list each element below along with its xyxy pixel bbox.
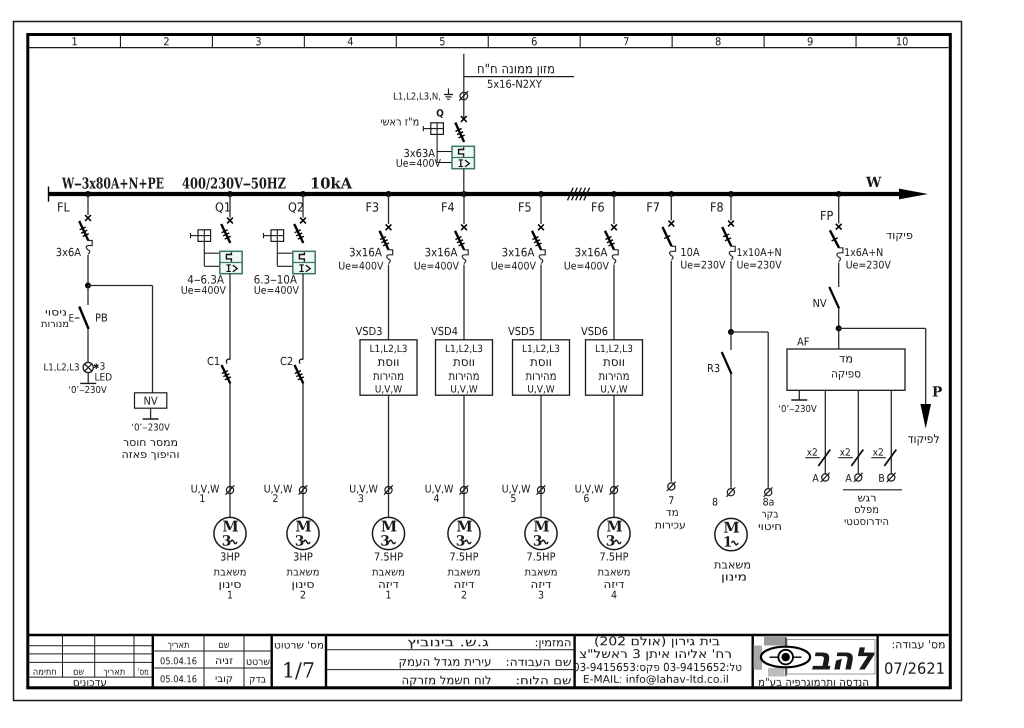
logo subtitle hebrew xyxy=(758,678,868,687)
bus W arrowhead xyxy=(899,189,928,200)
label VSD3 xyxy=(356,327,382,335)
label 3x6A xyxy=(57,248,81,256)
label F6 xyxy=(592,202,604,212)
hydrostatic sensor hebrew xyxy=(858,496,876,502)
sensor wire B xyxy=(890,390,892,474)
sensor wire A xyxy=(824,390,826,474)
breaker F8 thermal xyxy=(731,246,735,251)
label Ue=400V Q1 xyxy=(182,286,226,294)
label Ue=230V F8 xyxy=(737,261,781,269)
wire PB to lamp xyxy=(87,329,89,362)
address line 1 hebrew xyxy=(595,636,719,648)
VSD box VSD6 xyxy=(586,340,643,395)
address line 3 phone xyxy=(574,663,742,674)
label PB xyxy=(96,314,107,322)
motor 5 hebrew label xyxy=(525,570,557,576)
revisions footer hebrew xyxy=(74,680,106,686)
wire F4 xyxy=(463,194,465,224)
breaker Q trip unit xyxy=(452,146,474,168)
work number label hebrew xyxy=(893,640,945,649)
label 0-230V AF xyxy=(779,405,817,412)
breaker F8 x-mark xyxy=(728,221,734,227)
sensor wire A xyxy=(857,390,859,474)
VSD4 UVW xyxy=(451,385,477,394)
VSD5 hebrew speed-controller xyxy=(530,359,551,366)
label 3x16A F6 xyxy=(575,248,607,257)
motor 1 number xyxy=(228,591,232,599)
contactor C1 label xyxy=(208,357,220,365)
date row 2 xyxy=(161,675,197,682)
cable label U,V,W 3 xyxy=(350,485,378,494)
wire F5 to VSD xyxy=(540,265,542,340)
label 0-230V NV xyxy=(132,423,170,430)
title block top line xyxy=(28,634,949,637)
breaker FL thermal xyxy=(88,241,92,246)
date table lines xyxy=(153,650,272,652)
motor M1 xyxy=(214,517,246,549)
label 4‒6.3A xyxy=(188,275,224,284)
breaker F5 contact xyxy=(532,231,541,250)
wire F5 xyxy=(540,194,542,224)
incomer phases label xyxy=(394,92,440,100)
cable mark B xyxy=(888,474,895,481)
label VSD5 xyxy=(508,327,534,335)
cable label U,V,W 2 xyxy=(265,485,293,494)
label 3HP xyxy=(294,552,313,560)
bus junction node xyxy=(85,191,91,197)
lamp phases label xyxy=(44,363,79,371)
label 0-230V lamp xyxy=(69,386,107,393)
revisions header hebrew xyxy=(34,670,56,675)
label Ue=400V F4 xyxy=(415,262,459,270)
title block divider xyxy=(271,635,273,688)
wire to P arrow xyxy=(839,327,926,329)
cable mark 8a xyxy=(765,489,772,496)
wire F3 xyxy=(388,194,390,224)
flow meter AF box xyxy=(787,349,905,390)
node FL/NV xyxy=(85,283,91,289)
label VSD6 xyxy=(581,327,607,335)
x2 switch A xyxy=(818,450,830,467)
label AF xyxy=(797,338,809,346)
incomer cable mark xyxy=(460,92,468,100)
label 1x6A+N xyxy=(845,248,882,256)
logo gray blocks xyxy=(764,636,787,646)
bus label 400/230V-50HZ xyxy=(183,177,286,190)
cable mark 4 xyxy=(460,487,467,494)
breaker FP x-mark xyxy=(836,224,842,230)
job label hebrew xyxy=(507,660,571,667)
bus label 10kA xyxy=(312,177,352,189)
motor 4 hebrew label xyxy=(448,570,480,576)
logo inner frame xyxy=(787,640,875,675)
sensor underline xyxy=(843,489,902,491)
pushbutton PB label hebrew xyxy=(46,310,66,315)
VSD3 hebrew speed-controller xyxy=(378,359,399,366)
cable mark 6 xyxy=(610,487,617,494)
breaker FL x-mark xyxy=(85,215,91,221)
indicator lamp xyxy=(83,362,93,372)
logo crosshair xyxy=(785,638,787,676)
breaker Q contact xyxy=(455,123,464,143)
ruler strip xyxy=(29,47,949,49)
label FL xyxy=(58,202,70,211)
label 7.5HP F4 xyxy=(450,553,478,561)
label Ue=230V FP xyxy=(847,261,891,269)
breaker Q2 contact xyxy=(294,224,303,243)
bus junction node xyxy=(668,191,674,197)
bus junction node xyxy=(611,191,617,197)
breaker F3 thermal xyxy=(389,250,393,255)
breaker Q1 contact xyxy=(221,224,230,243)
earth symbol xyxy=(448,89,450,95)
cable label U,V,W 4 xyxy=(426,485,454,494)
title block divider xyxy=(876,635,878,688)
logo eye xyxy=(761,647,810,668)
label phase-loss relay hebrew xyxy=(124,440,178,446)
label 8a xyxy=(763,498,773,506)
wire F4 to VSD xyxy=(463,265,465,340)
bus W xyxy=(49,192,907,196)
label FP xyxy=(821,211,833,220)
motor M4 xyxy=(448,517,480,549)
cable mark 3 xyxy=(385,487,392,494)
drawing number 1/7 xyxy=(284,662,313,680)
title block divider xyxy=(152,635,154,688)
x2 switch B xyxy=(884,450,896,467)
client cell rows xyxy=(326,649,575,651)
title block divider xyxy=(752,635,754,688)
breaker Q1 linkage xyxy=(203,241,205,266)
cable label U,V,W 1 xyxy=(192,485,220,494)
motor 2 number xyxy=(301,591,305,599)
bus label W-3x80A+N+PE xyxy=(62,177,163,188)
label R3 xyxy=(708,364,719,372)
AF terminal xyxy=(798,390,800,400)
wire Q1 to contactor xyxy=(229,274,231,359)
cable mark 1 xyxy=(226,487,233,494)
label 7.5HP F5 xyxy=(527,553,555,561)
label to-control hebrew xyxy=(908,434,939,445)
label 7 xyxy=(669,496,673,504)
VSD4 hebrew speed-controller xyxy=(453,359,474,366)
dosing pump hebrew label xyxy=(714,562,750,568)
label F3 xyxy=(367,202,379,212)
VSD box VSD5 xyxy=(513,340,570,395)
feeder cable label xyxy=(488,80,542,88)
bus junction node xyxy=(728,191,734,197)
job value hebrew xyxy=(400,657,491,668)
motor 5 number xyxy=(539,591,544,599)
contactor C2 xyxy=(299,359,303,363)
NV terminal xyxy=(150,408,152,419)
label 1x10A+N xyxy=(738,248,781,256)
breaker F6 contact xyxy=(605,231,614,250)
label 7.5HP F3 xyxy=(375,553,403,561)
address line 4 email xyxy=(584,675,728,685)
label Q2 xyxy=(289,202,303,213)
node F8 split xyxy=(728,329,734,335)
AF hebrew flow meter xyxy=(840,356,853,362)
label F4 xyxy=(442,202,454,211)
breaker F5 thermal xyxy=(541,250,545,255)
breaker Q2 x-mark xyxy=(300,218,306,224)
wire node to AF box xyxy=(838,328,840,349)
label Q1 xyxy=(216,202,230,213)
breaker Q1 x-mark xyxy=(227,218,233,224)
breaker FP contact xyxy=(830,230,839,248)
breaker Q x-mark xyxy=(461,116,467,122)
VSD3 UVW xyxy=(376,385,402,394)
wire F7 xyxy=(670,194,672,220)
client value hebrew xyxy=(408,640,489,649)
wire F3 to VSD xyxy=(388,265,390,340)
motor 6 hebrew label xyxy=(598,570,630,576)
breaker Q2 linkage xyxy=(276,241,278,266)
breaker Q2 operator box xyxy=(271,230,284,242)
panel label hebrew xyxy=(517,676,571,684)
wire FL lower xyxy=(87,255,89,286)
pushbutton PB actuator xyxy=(69,314,73,321)
cable mark 8 xyxy=(727,489,734,496)
label turbidity meter hebrew xyxy=(666,510,678,516)
incomer wire to bus xyxy=(463,169,465,194)
wire to R3 xyxy=(730,332,732,350)
VSD box VSD4 xyxy=(436,340,493,395)
wire to NV relay xyxy=(88,285,153,287)
wire C1 to motor xyxy=(229,384,231,518)
relay NV box xyxy=(135,393,167,408)
relay contact R3 xyxy=(722,352,732,374)
feeder label hebrew xyxy=(478,64,554,76)
wire to 8a xyxy=(731,331,768,333)
motor 6 number xyxy=(612,591,617,599)
breaker F4 thermal xyxy=(464,250,468,255)
wire Q2 xyxy=(302,194,304,218)
revisions table rows xyxy=(28,645,153,647)
wire F6 to VSD xyxy=(613,265,615,340)
label 3x16A F3 xyxy=(350,248,382,257)
drawing number header hebrew xyxy=(275,641,323,648)
cable mark A xyxy=(855,474,862,481)
label 3x16A F4 xyxy=(425,248,457,257)
label 3HP xyxy=(221,552,240,560)
client label hebrew xyxy=(536,640,571,648)
label F5 xyxy=(519,202,531,211)
date header hebrew xyxy=(168,643,189,650)
wire FP down xyxy=(838,263,840,288)
label 7.5HP F6 xyxy=(600,553,628,561)
VSD6 hebrew speed-controller xyxy=(603,359,624,366)
label NV contact xyxy=(814,299,827,307)
cable label U,V,W 6 xyxy=(576,485,604,494)
bus label W right xyxy=(866,177,882,187)
motor M3 xyxy=(372,517,404,549)
label Ue=400V F5 xyxy=(492,262,536,270)
breaker F4 contact xyxy=(455,231,464,250)
motor 1 hebrew label xyxy=(214,570,246,576)
label control hebrew xyxy=(887,233,913,241)
wire FP xyxy=(838,194,840,224)
breaker F6 x-mark xyxy=(611,224,617,230)
motor M5 xyxy=(525,517,557,549)
wire Q1 xyxy=(229,194,231,218)
bus junction node xyxy=(538,191,544,197)
cable mark 5 xyxy=(537,487,544,494)
breaker F5 x-mark xyxy=(538,224,544,230)
address line 2 hebrew xyxy=(580,649,731,660)
lamp qty *3 xyxy=(94,364,99,369)
x2 switch A xyxy=(851,450,863,467)
label 3x16A F5 xyxy=(502,248,534,257)
bus junction node xyxy=(836,191,842,197)
breaker Q operator box xyxy=(431,123,444,135)
contactor C1 xyxy=(226,359,230,363)
label Ue=400V F3 xyxy=(339,262,383,270)
VSD5 UVW xyxy=(528,385,554,394)
wire VSD4 to motor xyxy=(463,395,465,517)
label Ue=400V Q2 xyxy=(255,286,299,294)
wire C2 to motor xyxy=(302,384,304,518)
logo LAHAV hebrew xyxy=(812,647,874,669)
bus W end cap xyxy=(48,187,50,202)
contact NV xyxy=(829,287,839,309)
label Q xyxy=(437,109,444,118)
wire VSD5 to motor xyxy=(540,395,542,517)
node AF xyxy=(836,325,842,331)
wire FL xyxy=(87,194,89,215)
wire F8 xyxy=(730,194,732,220)
breaker F4 x-mark xyxy=(461,224,467,230)
cable mark 7 xyxy=(668,483,675,490)
wire F7 down xyxy=(670,261,672,482)
wire VSD3 to motor xyxy=(388,395,390,517)
incomer feeder line xyxy=(463,54,465,119)
bus junction node xyxy=(227,191,233,197)
label Ue=400V Q xyxy=(397,159,441,167)
label main breaker hebrew xyxy=(381,118,418,126)
label F8 xyxy=(711,202,723,212)
wire NV to node xyxy=(838,309,840,329)
breaker FL contact xyxy=(79,221,88,241)
motor M2 xyxy=(287,517,319,549)
work number 07/2621 xyxy=(885,662,944,675)
date row 1 xyxy=(161,657,197,664)
bus junction node xyxy=(300,191,306,197)
breaker Q linkage xyxy=(436,134,438,162)
motor 3 number xyxy=(387,591,391,599)
label F7 xyxy=(647,202,659,211)
bus junction node xyxy=(386,191,392,197)
breaker F3 x-mark xyxy=(386,224,392,230)
breaker F7 contact xyxy=(663,227,672,246)
motor 2 hebrew label xyxy=(287,570,319,576)
title block divider xyxy=(573,635,575,688)
breaker F6 thermal xyxy=(614,250,618,255)
label 10A xyxy=(681,248,699,256)
breaker F7 x-mark xyxy=(668,221,674,227)
label Ue=400V F6 xyxy=(565,262,609,270)
breaker F8 contact xyxy=(722,227,731,246)
wire R3 to motor xyxy=(730,374,732,488)
label P xyxy=(933,386,942,396)
motor M dosing xyxy=(715,518,747,550)
label 6.3‒10A xyxy=(254,275,297,284)
lamp terminal xyxy=(87,373,89,384)
cable mark A xyxy=(822,474,829,481)
VSD6 UVW xyxy=(601,385,627,394)
breaker Q1 operator box xyxy=(198,230,211,242)
wire F8 down xyxy=(730,261,732,332)
motor M6 xyxy=(598,517,630,549)
cable mark 2 xyxy=(299,487,306,494)
wire PB upper xyxy=(87,286,89,306)
title block divider xyxy=(325,635,327,688)
revisions table columns xyxy=(62,635,64,677)
label LED xyxy=(95,373,111,380)
pushbutton PB contact xyxy=(79,307,88,330)
label Ue=230V F7 xyxy=(681,261,725,269)
panel value hebrew xyxy=(403,676,491,687)
bus junction node xyxy=(461,191,467,197)
VSD box VSD3 xyxy=(360,340,417,395)
arrow P to control xyxy=(920,404,931,429)
breaker Q1 trip unit xyxy=(220,251,242,273)
breaker F3 contact xyxy=(380,231,389,250)
motor 3 hebrew label xyxy=(372,570,404,576)
label VSD4 xyxy=(431,327,457,335)
label 3x63A xyxy=(404,149,435,157)
breaker FP thermal xyxy=(839,248,843,253)
cable label U,V,W 5 xyxy=(503,485,531,494)
contactor C2 label xyxy=(281,357,293,365)
breaker Q2 trip unit xyxy=(293,251,315,273)
breaker F7 thermal xyxy=(671,246,675,251)
wire VSD6 to motor xyxy=(613,395,615,517)
wire Q2 to contactor xyxy=(302,274,304,359)
motor 4 number xyxy=(462,591,466,599)
label 8 xyxy=(713,498,718,506)
wire F6 xyxy=(613,194,615,224)
label disinfection controller hebrew xyxy=(762,512,778,520)
bus section hash marks xyxy=(568,188,574,201)
